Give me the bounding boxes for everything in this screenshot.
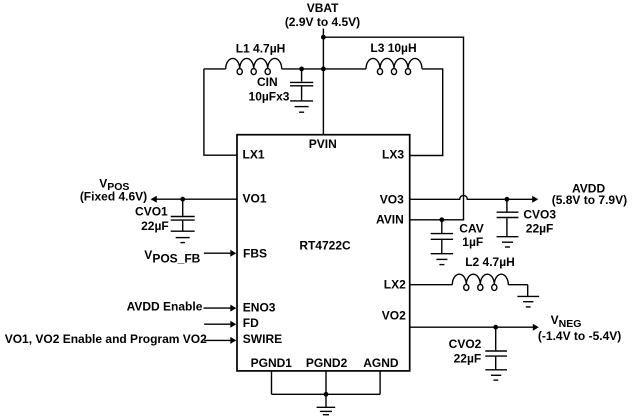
ground main xyxy=(317,407,336,414)
svg-text:VO1, VO2 Enable and Program VO: VO1, VO2 Enable and Program VO2 xyxy=(5,332,207,346)
wire VO1 to VPOS output xyxy=(156,198,237,200)
net label VBAT xyxy=(285,1,360,29)
junction dot ground bus xyxy=(324,392,329,397)
wire ENO3 input xyxy=(204,307,232,309)
svg-text:CVO1: CVO1 xyxy=(135,204,168,218)
svg-text:LX1: LX1 xyxy=(243,147,265,161)
svg-text:CVO2: CVO2 xyxy=(449,337,482,351)
wire AGND riser xyxy=(379,371,381,394)
svg-text:ENO3: ENO3 xyxy=(243,301,276,315)
svg-text:VBAT: VBAT xyxy=(307,1,339,15)
junction dot VBAT top branch xyxy=(321,35,326,40)
wire CIN node to VBAT node xyxy=(302,68,324,70)
svg-text:CIN: CIN xyxy=(257,75,278,89)
wire PGND1 riser xyxy=(271,371,273,394)
svg-text:AVIN: AVIN xyxy=(376,213,404,227)
wire VBAT to AVIN pin xyxy=(323,37,463,220)
svg-text:CAV: CAV xyxy=(459,222,483,236)
arrow FBS xyxy=(230,250,236,257)
wire SWIRE input xyxy=(204,339,231,341)
svg-text:VNEG: VNEG xyxy=(551,313,582,330)
svg-text:PGND1: PGND1 xyxy=(251,356,293,370)
inductor L2 xyxy=(410,274,528,290)
capacitor CIN xyxy=(290,69,313,100)
junction dot VO2/CVO2 xyxy=(493,325,498,330)
svg-text:(Fixed 4.6V): (Fixed 4.6V) xyxy=(80,189,147,203)
svg-text:RT4722C: RT4722C xyxy=(299,238,351,252)
inductor L1 xyxy=(204,58,302,74)
ground CVO3 xyxy=(497,237,519,247)
svg-text:FD: FD xyxy=(243,316,259,330)
svg-text:SWIRE: SWIRE xyxy=(243,332,282,346)
wire ground bus xyxy=(272,393,381,395)
wire PGND2 riser xyxy=(325,371,327,394)
svg-text:L1 4.7µH: L1 4.7µH xyxy=(236,41,286,55)
svg-text:L3 10µH: L3 10µH xyxy=(370,41,416,55)
ground CVO1 xyxy=(171,231,195,242)
wire bus to main ground xyxy=(325,394,327,407)
wire FD input xyxy=(204,323,231,325)
ground CIN xyxy=(290,101,313,112)
arrow VPOS (points left) xyxy=(151,196,157,203)
svg-text:(5.8V to 7.9V): (5.8V to 7.9V) xyxy=(552,193,627,207)
capacitor CVO3 xyxy=(497,199,519,236)
ground CVO2 xyxy=(485,370,507,380)
wire VBAT stem to PVIN pin xyxy=(322,29,324,135)
junction dot VO1/CVO1 xyxy=(180,197,185,202)
svg-text:AVDD Enable: AVDD Enable xyxy=(127,300,203,314)
capacitor CVO2 xyxy=(485,327,507,369)
junction dot VBAT rail xyxy=(321,67,326,72)
capacitor CVO1 xyxy=(171,199,195,230)
arrow VNEG (points right) xyxy=(533,324,539,331)
svg-text:L2 4.7µH: L2 4.7µH xyxy=(465,255,515,269)
svg-text:FBS: FBS xyxy=(243,246,267,260)
arrow ENO3 xyxy=(230,305,236,312)
svg-text:22µF: 22µF xyxy=(526,221,554,235)
IC U1 RT4722C body xyxy=(237,135,410,371)
inductor L3 xyxy=(323,58,422,74)
wire FBS input xyxy=(204,252,231,254)
capacitor CAV xyxy=(431,220,453,253)
ground CAV xyxy=(431,254,453,265)
svg-text:AGND: AGND xyxy=(363,356,399,370)
wire LX3 xyxy=(410,69,443,156)
svg-text:(-1.4V to -5.4V): (-1.4V to -5.4V) xyxy=(538,329,621,343)
wire LX1 riser xyxy=(204,69,237,155)
svg-text:(2.9V to 4.5V): (2.9V to 4.5V) xyxy=(285,15,360,29)
svg-text:1µF: 1µF xyxy=(462,235,483,249)
svg-text:PGND2: PGND2 xyxy=(306,356,348,370)
svg-text:10µFx3: 10µFx3 xyxy=(249,89,290,103)
svg-text:22µF: 22µF xyxy=(141,219,169,233)
svg-text:PVIN: PVIN xyxy=(309,137,337,151)
svg-text:VO2: VO2 xyxy=(382,309,406,323)
junction dot AVIN/CAV node xyxy=(439,217,444,222)
junction dot CIN xyxy=(299,67,304,72)
svg-text:22µF: 22µF xyxy=(454,351,482,365)
svg-text:LX2: LX2 xyxy=(384,278,406,292)
wire L2 to ground xyxy=(527,285,529,297)
arrow FD xyxy=(230,321,236,328)
arrow AVDD (points right) xyxy=(532,196,538,203)
svg-text:VPOS_FB: VPOS_FB xyxy=(144,248,200,266)
wire VO3 to AVDD output (hop over VBAT line) xyxy=(410,195,533,199)
wire VO2 to VNEG output xyxy=(410,326,533,328)
svg-text:VO3: VO3 xyxy=(380,192,404,206)
ground L2 xyxy=(517,296,539,307)
junction dot VO3/CVO3 xyxy=(505,197,510,202)
svg-text:VO1: VO1 xyxy=(243,192,267,206)
svg-text:LX3: LX3 xyxy=(382,147,404,161)
arrow SWIRE xyxy=(230,337,236,344)
svg-text:CVO3: CVO3 xyxy=(523,207,556,221)
